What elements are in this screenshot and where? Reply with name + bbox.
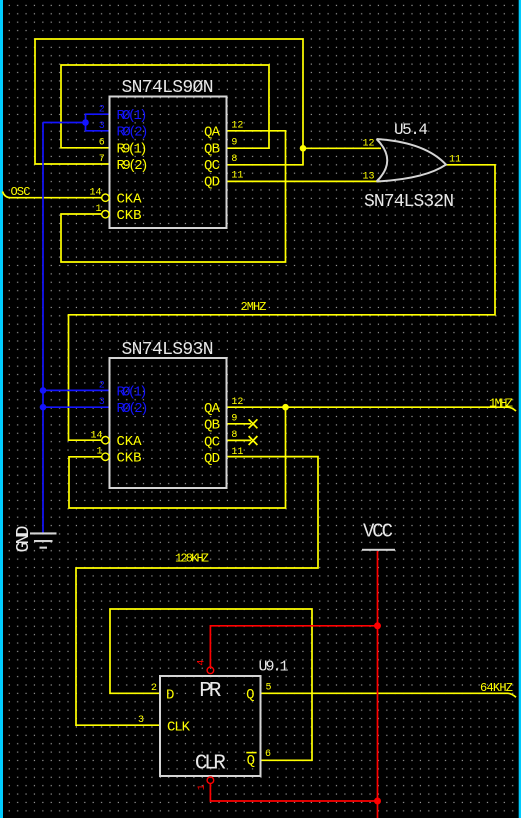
blue wire: main vertical to GND	[42, 123, 44, 533]
junction: red node at (377.5,625.8)	[374, 622, 381, 629]
wire net: QA(12) of SN74LS93N to 1MHZ and CKB loop	[69, 407, 516, 508]
junction: blue node at (85.5,122.5)	[82, 119, 89, 126]
svg-text:CLK: CLK	[167, 719, 191, 735]
svg-text:OSC: OSC	[11, 185, 31, 199]
svg-text:11: 11	[231, 447, 243, 458]
wire: QC(8) no-connect stub of SN74LS93N	[227, 436, 257, 445]
wire net: OSC to CKA(14)	[3, 192, 102, 198]
svg-text:2: 2	[151, 683, 157, 694]
svg-text:QA: QA	[204, 125, 221, 141]
svg-text:CKA: CKA	[117, 434, 143, 450]
wire net: QD(11) of SN74LS90N to OR input 13	[227, 180, 381, 182]
svg-text:SN74LS32N: SN74LS32N	[364, 192, 454, 212]
svg-text:6: 6	[99, 138, 105, 149]
svg-text:5: 5	[266, 683, 272, 694]
svg-text:SN74LS93N: SN74LS93N	[122, 340, 214, 360]
pin bubble CKB U90N	[102, 211, 109, 218]
wire net: QB(9) to R9(1)(6) loop	[61, 65, 269, 148]
IC U? counter SN74LS93N	[110, 340, 227, 488]
svg-text:13: 13	[362, 172, 374, 183]
red wire: VCC to PR pin 4	[210, 626, 377, 667]
svg-text:QB: QB	[204, 418, 220, 434]
svg-text:CKB: CKB	[117, 208, 142, 224]
red wire: CLR pin 1 to VCC	[210, 784, 377, 802]
svg-text:Q: Q	[246, 687, 254, 703]
svg-text:RØ(1): RØ(1)	[117, 108, 148, 124]
svg-text:9: 9	[231, 414, 237, 425]
svg-text:R9(2): R9(2)	[117, 158, 149, 174]
svg-text:CKA: CKA	[117, 191, 143, 207]
svg-text:64KHZ: 64KHZ	[480, 681, 513, 695]
svg-text:QC: QC	[204, 434, 220, 450]
IC U? counter SN74LS90N	[110, 78, 227, 228]
svg-text:QD: QD	[204, 175, 220, 191]
svg-text:U5.4: U5.4	[394, 121, 428, 139]
junction: node at (285.5,407.2)	[282, 404, 289, 411]
svg-text:QD: QD	[204, 451, 220, 467]
svg-text:128KHZ: 128KHZ	[175, 551, 209, 565]
svg-text:2: 2	[99, 381, 105, 392]
svg-text:14: 14	[90, 431, 102, 442]
svg-text:RØ(2): RØ(2)	[117, 401, 149, 417]
svg-text:2: 2	[99, 104, 105, 115]
svg-text:SN74LS9ØN: SN74LS9ØN	[122, 78, 214, 98]
svg-text:D: D	[166, 688, 174, 704]
svg-text:Q: Q	[247, 753, 255, 769]
pin bubble CLR U9.1	[207, 777, 214, 784]
op gate U5.4 OR gate SN74LS32N	[364, 121, 454, 212]
blue wire: R0(2) stub of SN74LS93N	[43, 406, 110, 408]
svg-text:VCC: VCC	[363, 521, 393, 543]
junction: node at (303,148.3)	[300, 145, 307, 152]
blue wire: R0(1) stub of SN74LS93N	[43, 389, 110, 391]
wire net: 2MHZ - OR output 11 to CKA of SN74LS93N	[69, 165, 496, 440]
svg-text:GND: GND	[14, 526, 34, 553]
pin bubble CKB U93N	[102, 453, 109, 460]
junction: blue node at (43,407.2)	[40, 404, 47, 411]
svg-text:8: 8	[231, 154, 237, 165]
svg-text:U9.1: U9.1	[259, 659, 289, 676]
pin bubble PR U9.1	[207, 667, 214, 674]
svg-text:QC: QC	[204, 158, 220, 174]
svg-text:11: 11	[231, 171, 243, 182]
wire net: QA(12) to CKB(1) loop of SN74LS90N	[61, 131, 286, 262]
svg-text:3: 3	[99, 121, 105, 132]
wire: QB(9) no-connect stub of SN74LS93N	[227, 419, 257, 428]
pin bubble CKA U93N	[102, 437, 109, 444]
svg-text:12: 12	[231, 397, 243, 408]
wire net: Q(5) to 64KHZ	[261, 693, 516, 697]
svg-text:11: 11	[449, 155, 461, 166]
svg-text:CLR: CLR	[195, 752, 226, 775]
wire net: QC(8) to R9(2)(7) loop and OR input 12	[35, 39, 381, 165]
wire net: 128KHZ - QD(11) of SN74LS93N to CLK	[76, 457, 318, 726]
flip-flop U9.1	[160, 659, 289, 777]
svg-text:QB: QB	[204, 141, 220, 157]
svg-text:12: 12	[362, 138, 374, 149]
wire net: Qbar(6) to D(2) loop of U9.1	[110, 609, 312, 760]
svg-text:1: 1	[96, 447, 102, 458]
svg-text:PR: PR	[199, 680, 221, 703]
svg-text:CKB: CKB	[117, 451, 142, 467]
pin bubble CKA U90N	[102, 194, 109, 201]
svg-text:7: 7	[99, 154, 105, 165]
svg-text:RØ(1): RØ(1)	[117, 384, 148, 400]
svg-text:8: 8	[231, 430, 237, 441]
svg-text:QA: QA	[204, 401, 221, 417]
svg-text:4: 4	[196, 660, 207, 666]
svg-text:14: 14	[89, 188, 101, 199]
svg-text:12: 12	[231, 121, 243, 132]
svg-text:RØ(2): RØ(2)	[117, 125, 149, 141]
ground GND symbol	[14, 526, 57, 553]
blue wire: R0(1)/R0(2) bracket of SN74LS90N	[43, 114, 110, 131]
svg-text:1MHZ: 1MHZ	[489, 396, 513, 410]
junction: blue node at (43,390.4)	[40, 387, 47, 394]
red wire: VCC rail vertical	[377, 551, 379, 818]
svg-text:1: 1	[95, 204, 101, 215]
svg-text:2MHZ: 2MHZ	[241, 300, 267, 314]
power VCC symbol	[362, 521, 395, 551]
svg-text:6: 6	[265, 749, 271, 760]
svg-text:9: 9	[231, 137, 237, 148]
svg-text:1: 1	[197, 784, 208, 790]
svg-text:R9(1): R9(1)	[117, 141, 148, 157]
svg-text:3: 3	[99, 397, 105, 408]
svg-text:3: 3	[138, 715, 144, 726]
junction: red node at (377.5,801)	[374, 798, 381, 805]
